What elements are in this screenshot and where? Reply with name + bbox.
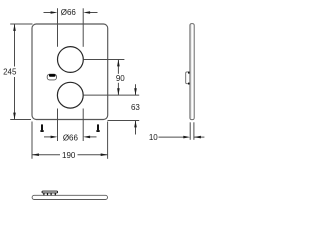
svg-text:Ø66: Ø66 [61,8,77,17]
svg-text:90: 90 [116,74,125,83]
svg-text:190: 190 [62,151,76,160]
svg-text:63: 63 [131,103,140,112]
svg-text:10: 10 [149,133,158,142]
svg-text:245: 245 [3,67,17,76]
svg-text:Ø66: Ø66 [63,134,79,143]
